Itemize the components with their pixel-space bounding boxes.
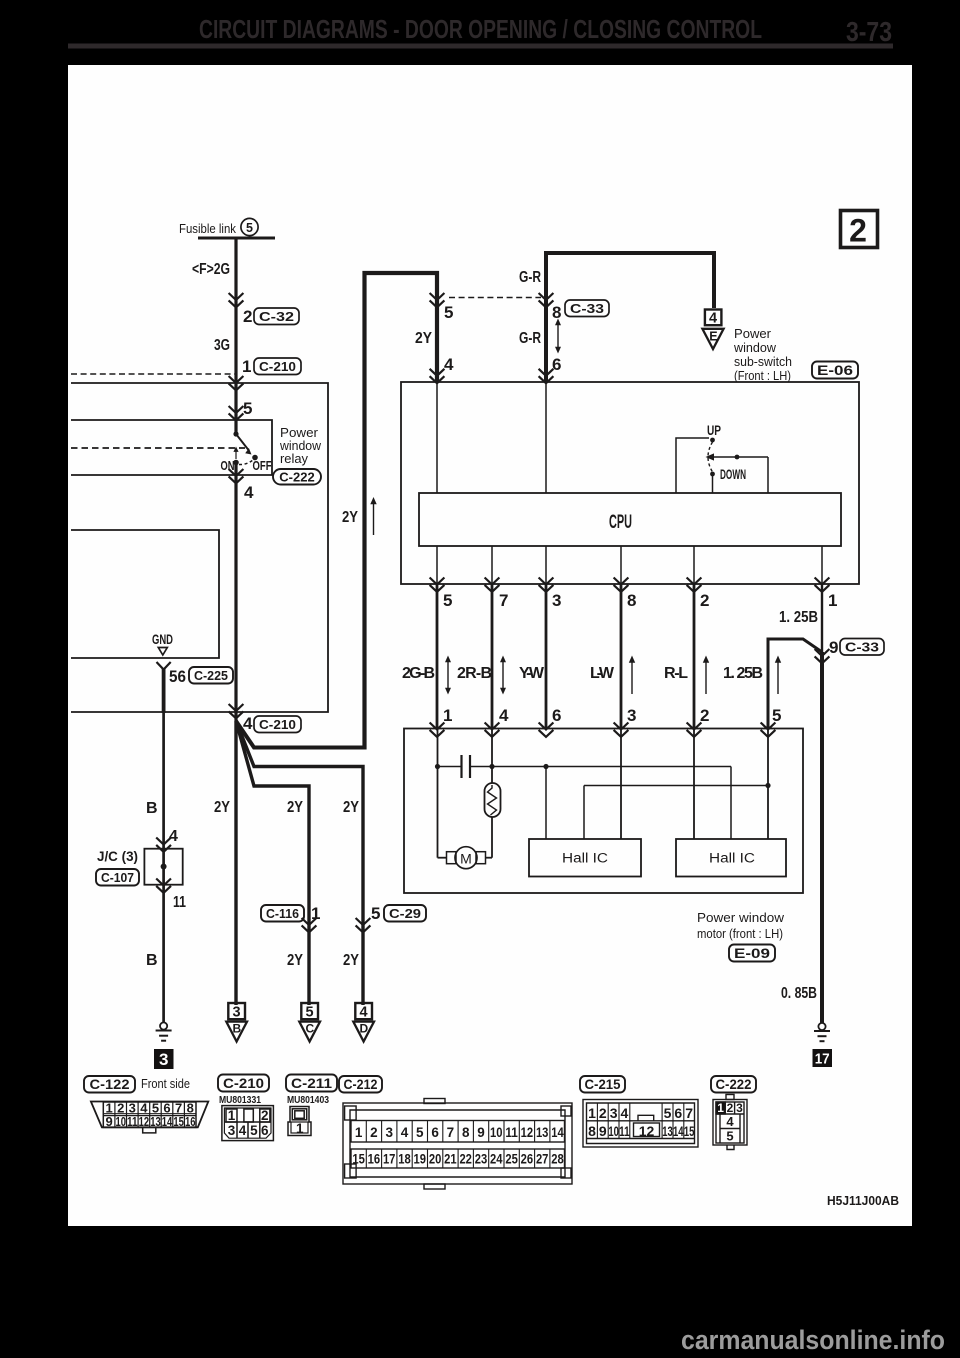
svg-text:21: 21 [444,1152,457,1167]
svg-text:3: 3 [159,1050,168,1069]
crossing C-116 pin 1 [302,918,317,932]
svg-text:6: 6 [552,706,561,725]
svg-text:C-29: C-29 [389,906,421,921]
crossing into J/C [156,838,171,852]
svg-text:4: 4 [499,706,509,725]
wire name labels [402,665,763,682]
power window motor box [404,729,803,894]
svg-text:window: window [279,439,322,453]
svg-text:1: 1 [355,1125,363,1140]
svg-text:motor (front : LH): motor (front : LH) [697,926,783,941]
svg-text:3-73: 3-73 [846,16,892,47]
wire label <F>2G [192,261,230,278]
terminal 4 box to sub-switch [705,310,722,327]
svg-text:1: 1 [717,1101,724,1115]
wire B to ground [162,713,165,1022]
1.25B jog wire from motor pin 5 [768,639,822,728]
connector C-225 stadium [189,667,233,684]
ground fork [157,662,171,670]
arrow D terminal [353,1003,374,1042]
svg-text:56: 56 [169,667,186,686]
svg-text:6: 6 [431,1125,439,1140]
ON / OFF labels [221,458,272,473]
double arrow 2G-B [445,656,451,695]
connector C-222 stadium label [711,1076,756,1093]
page ref 2 box [841,211,878,249]
svg-text:window: window [733,341,777,355]
sub-switch unit box E-06 [401,382,859,584]
svg-text:2Y: 2Y [342,509,358,526]
svg-text:25: 25 [505,1152,518,1167]
junction dots [435,764,440,769]
svg-text:2Y: 2Y [214,799,230,816]
svg-text:C-33: C-33 [845,640,879,655]
svg-text:10: 10 [115,1114,126,1129]
svg-text:11: 11 [173,894,186,911]
GND triangle [158,648,167,656]
svg-text:2: 2 [599,1105,607,1121]
svg-text:11: 11 [127,1114,138,1129]
sub-switch pin 6 [552,355,561,374]
crossing C-33 pin 8 [539,293,554,307]
connector C-212 drawing [343,1099,572,1190]
svg-text:1: 1 [296,1121,304,1136]
connector C-215 drawing [583,1100,698,1148]
svg-text:Power: Power [734,327,771,341]
wire relay output [234,463,237,722]
svg-text:11: 11 [505,1125,518,1140]
svg-text:UP: UP [707,423,721,438]
up arrow 1.25B [775,656,781,695]
svg-text:2Y: 2Y [343,952,359,969]
svg-text:G-R: G-R [519,269,541,286]
svg-text:5: 5 [306,1005,314,1021]
svg-text:18: 18 [398,1152,411,1167]
svg-text:1: 1 [588,1105,596,1121]
UP contact wire [676,438,709,493]
svg-text:1: 1 [443,706,452,725]
lower 2Y labels [287,952,359,969]
power window relay box [71,420,272,475]
connector crossing C-210 pin 1 [242,357,251,376]
relay fixed contact [233,431,238,436]
svg-text:10: 10 [490,1125,503,1140]
connector C-210 drawing [222,1106,274,1141]
connector C-32 stadium [254,308,299,325]
2Y label [415,330,432,347]
G-R label upper [519,269,541,286]
hall sensor bus line [584,783,771,839]
svg-text:1: 1 [228,1108,236,1123]
svg-text:D: D [359,1022,368,1036]
svg-text:5: 5 [444,303,453,322]
svg-text:5: 5 [772,706,781,725]
svg-text:15: 15 [684,1123,695,1139]
svg-text:23: 23 [475,1152,488,1167]
svg-text:24: 24 [490,1152,503,1167]
svg-text:3: 3 [627,706,636,725]
0.85B label [781,985,817,1002]
sub-switch pin 4 [444,355,454,374]
UP label [707,423,721,438]
svg-text:2: 2 [849,213,867,249]
crossing into unit box [229,376,244,390]
double arrow 2R-B [500,656,506,695]
connector E-09 stadium [729,945,775,962]
common contact wire with arrow [706,453,769,493]
wire label 3G [214,337,230,354]
switch dashed arc [708,442,713,472]
svg-text:OFF: OFF [253,458,272,473]
svg-text:C-210: C-210 [223,1076,264,1091]
svg-text:B: B [146,952,158,969]
svg-text:relay: relay [280,452,309,466]
svg-text:3: 3 [233,1005,241,1021]
svg-text:5: 5 [726,1129,733,1144]
svg-text:2: 2 [700,591,709,610]
header underline [68,44,893,49]
svg-text:15: 15 [173,1114,184,1129]
svg-text:20: 20 [429,1152,442,1167]
svg-text:1: 1 [828,591,837,610]
arrow E terminal [702,329,723,349]
svg-text:5: 5 [243,399,252,418]
svg-text:(Front : LH): (Front : LH) [734,369,791,383]
svg-text:8: 8 [552,303,561,322]
svg-text:16: 16 [185,1114,196,1129]
svg-text:J/C (3): J/C (3) [97,848,138,864]
connector C-33 stadium [565,300,609,317]
svg-text:MU801331: MU801331 [219,1094,261,1106]
power window relay caption [279,426,322,466]
svg-text:1: 1 [242,357,251,376]
svg-text:11: 11 [619,1123,630,1139]
arrow C terminal [299,1003,320,1042]
svg-text:6: 6 [261,1123,269,1138]
svg-text:3: 3 [736,1101,743,1115]
left unit box (relay housing) [71,383,328,712]
crossing C-29 pin 5 [371,904,380,923]
thick ground wire [162,669,166,713]
svg-text:C-225: C-225 [194,668,228,683]
svg-text:1. 25B: 1. 25B [779,609,818,626]
connector C-116 stadium [261,905,304,922]
fan wire B down to D arrow [236,721,363,1005]
svg-text:C-212: C-212 [344,1077,378,1092]
svg-text:E-09: E-09 [734,946,770,961]
svg-text:C-33: C-33 [570,301,604,316]
straight wire down to B arrow [234,721,237,1005]
svg-text:6: 6 [552,355,561,374]
svg-text:E-06: E-06 [817,363,854,378]
svg-text:Fusible link: Fusible link [179,221,236,236]
svg-text:ON: ON [221,458,235,473]
svg-text:B: B [146,800,158,817]
svg-text:4: 4 [726,1114,734,1129]
GND box [71,530,219,658]
motor feed wires [437,729,439,767]
svg-text:13: 13 [662,1123,673,1139]
hall wires [545,767,547,840]
white paper [68,65,912,1226]
svg-text:C-215: C-215 [585,1077,621,1092]
svg-text:E: E [709,330,717,344]
crossing out of unit box pin 4 [229,704,244,718]
svg-text:G-R: G-R [519,330,541,347]
arrow B terminal [226,1003,247,1042]
svg-text:7: 7 [499,591,508,610]
DOWN contact [710,472,715,477]
svg-text:14: 14 [673,1123,684,1139]
svg-text:3: 3 [385,1125,393,1140]
connector C-212 stadium label [339,1076,382,1093]
svg-text:5: 5 [416,1125,424,1140]
svg-text:3G: 3G [214,337,230,354]
svg-text:CPU: CPU [609,512,632,533]
G-R label lower [519,330,541,347]
relay pin 5 [243,399,252,418]
svg-text:16: 16 [368,1152,381,1167]
svg-text:C-116: C-116 [266,906,299,921]
crossing C-33 pin 5 (2Y wire) [430,293,445,307]
diagram code H5J11J00AB [827,1193,899,1208]
connector C-222 stadium [273,469,321,485]
dashed tie line to relay box [71,373,236,375]
2Y riser and top run to sub-switch [365,273,438,750]
svg-text:8: 8 [627,591,636,610]
svg-text:CIRCUIT DIAGRAMS - DOOR OPENIN: CIRCUIT DIAGRAMS - DOOR OPENING / CLOSIN… [199,14,762,44]
MU801403 part number [287,1094,329,1106]
svg-text:10: 10 [608,1123,619,1139]
CPU output wires to box edge [436,546,438,584]
svg-text:26: 26 [521,1152,534,1167]
svg-text:5: 5 [246,221,253,235]
svg-text:22: 22 [459,1152,472,1167]
svg-text:2G-B: 2G-B [402,665,435,682]
relay coil dashed line [71,447,245,449]
relay moving arm [236,434,249,450]
connector C-210 stadium label [218,1075,269,1092]
crossing out of relay pin 4 [229,469,244,483]
svg-text:19: 19 [414,1152,427,1167]
svg-text:H5J11J00AB: H5J11J00AB [827,1193,899,1208]
svg-text:2: 2 [700,706,709,725]
svg-text:DOWN: DOWN [720,467,746,482]
body ground symbol left [156,1022,172,1040]
svg-text:28: 28 [551,1152,564,1167]
svg-text:Power window: Power window [697,910,785,925]
svg-text:2: 2 [261,1108,269,1123]
svg-text:2Y: 2Y [287,799,303,816]
svg-text:0. 85B: 0. 85B [781,985,817,1002]
up arrow R-L [703,656,709,695]
svg-text:C-107: C-107 [101,870,134,885]
svg-text:Hall IC: Hall IC [709,851,755,866]
heavy ground wire 0.85B [820,652,824,1023]
svg-text:Y-W: Y-W [519,665,545,682]
crossing out of J/C pin 11 [156,879,171,893]
svg-text:8: 8 [462,1125,470,1140]
svg-text:L-W: L-W [590,665,615,682]
svg-text:2Y: 2Y [343,799,359,816]
Hall IC box left [529,839,641,877]
svg-text:8: 8 [588,1123,596,1139]
2Y labels row [214,799,359,816]
MU801331 part number [219,1094,261,1106]
body ground symbol right [814,1023,830,1041]
motor M [438,767,493,869]
connector C-215 stadium label [580,1076,625,1093]
svg-text:2: 2 [727,1101,734,1115]
G-R double arrow [555,319,561,354]
svg-text:12: 12 [639,1123,655,1139]
svg-text:7: 7 [447,1125,455,1140]
fusible link label [179,221,236,236]
connector C-33 stadium lower [840,639,884,656]
crossings out of sub-switch box [430,578,445,592]
svg-text:6: 6 [674,1105,682,1121]
capacitor plates [462,755,471,778]
svg-text:1. 25B: 1. 25B [723,665,763,682]
svg-text:4: 4 [169,828,178,845]
connector C-29 stadium [384,905,426,922]
fan wire C down to C arrow [236,721,309,1005]
power window sub-switch caption [733,327,792,383]
svg-text:carmanualsonline.info: carmanualsonline.info [681,1325,945,1355]
svg-text:5: 5 [443,591,452,610]
svg-text:C-32: C-32 [259,309,294,324]
svg-text:12: 12 [139,1114,150,1129]
ground ref 3 black box [154,1049,174,1069]
switch travel arrow [233,447,238,460]
connector C-210 stadium (lower) [254,716,301,733]
svg-text:12: 12 [521,1125,534,1140]
svg-text:15: 15 [352,1152,365,1167]
motor pin numbers [443,706,781,725]
2Y label mid riser [342,509,358,526]
svg-text:C-222: C-222 [279,470,314,485]
capacitor bus line [438,767,732,840]
fusible link number 5 circle [241,218,258,235]
crossing C-33 pin 9 [815,649,830,663]
svg-text:2R-B: 2R-B [457,665,492,682]
wire label B lower [146,952,158,969]
1.25B ground wire upper [821,584,823,652]
circuit breaker capsule [485,783,501,817]
sub-switch pin numbers lower [443,591,837,610]
svg-text:17: 17 [815,1051,830,1068]
svg-text:3: 3 [228,1123,236,1138]
connector C-122 stadium [84,1076,135,1093]
svg-text:3: 3 [610,1105,618,1121]
fusible link bus bar [198,237,275,240]
crossings into motor box [430,723,445,737]
svg-text:9: 9 [105,1114,112,1129]
svg-text:C-210: C-210 [259,717,296,732]
power window motor caption [697,910,785,941]
svg-text:9: 9 [599,1123,607,1139]
wire fusible link to relay [234,238,237,434]
svg-text:14: 14 [551,1125,564,1140]
DOWN label [720,467,746,482]
svg-text:1: 1 [311,904,320,923]
connector C-211 stadium label [286,1075,337,1092]
svg-text:4: 4 [239,1123,247,1138]
connector C-122 drawing [91,1101,208,1133]
svg-text:2: 2 [243,307,252,326]
svg-text:B: B [232,1022,241,1036]
svg-text:27: 27 [536,1152,549,1167]
svg-text:5: 5 [664,1105,672,1121]
svg-text:4: 4 [444,355,454,374]
svg-text:14: 14 [162,1114,173,1129]
svg-text:2Y: 2Y [287,952,303,969]
svg-text:Front side: Front side [141,1076,190,1091]
connector C-211 drawing [288,1107,311,1137]
svg-text:R-L: R-L [664,665,688,682]
svg-text:Power: Power [280,426,318,440]
svg-text:M: M [460,851,472,867]
relay ON contact [233,460,239,466]
svg-text:17: 17 [383,1152,396,1167]
dashed tie 2Y to G-R [449,297,541,299]
connector E-06 stadium [812,362,858,379]
svg-text:Hall IC: Hall IC [562,851,608,866]
svg-text:5: 5 [250,1123,258,1138]
junction box J/C(3) [144,849,182,885]
svg-text:<F>2G: <F>2G [192,261,230,278]
Hall IC box right [676,839,786,877]
wires sub-switch to motor [436,584,439,728]
svg-text:7: 7 [685,1105,693,1121]
connector C-222 drawing [713,1095,747,1150]
svg-text:3: 3 [552,591,561,610]
up arrow L-W [629,656,635,695]
svg-text:2: 2 [370,1125,378,1140]
svg-text:9: 9 [829,638,838,657]
svg-text:13: 13 [536,1125,549,1140]
svg-text:9: 9 [477,1125,485,1140]
svg-text:2Y: 2Y [415,330,432,347]
connector crossing C-225 pin 56 [169,667,186,686]
left earth wire B labels [146,800,178,845]
crossing into relay [229,406,244,420]
svg-text:4: 4 [244,483,254,502]
ground ref 17 black box [813,1049,833,1068]
svg-text:GND: GND [152,632,173,647]
svg-text:4: 4 [621,1105,629,1121]
svg-text:4: 4 [360,1005,368,1021]
svg-text:13: 13 [150,1114,161,1129]
CPU box [419,493,841,546]
connector crossing C-32 pin 2 [229,293,244,307]
wire pin4 to CPU [436,382,438,493]
GND label [152,632,173,647]
svg-text:4: 4 [401,1125,409,1140]
svg-text:C-211: C-211 [291,1076,333,1091]
connector C-210 stadium [254,358,301,375]
svg-text:sub-switch: sub-switch [734,355,792,369]
wire pin6 to CPU [545,382,547,493]
svg-text:C-122: C-122 [90,1077,130,1092]
svg-text:5: 5 [371,904,380,923]
connector C-107 stadium [96,869,139,886]
front side caption [141,1076,190,1091]
fan wire A to 2Y riser [236,721,365,748]
G-R loop wire [546,253,714,383]
2Y vertical arrow [370,497,376,535]
svg-text:MU801403: MU801403 [287,1094,329,1106]
